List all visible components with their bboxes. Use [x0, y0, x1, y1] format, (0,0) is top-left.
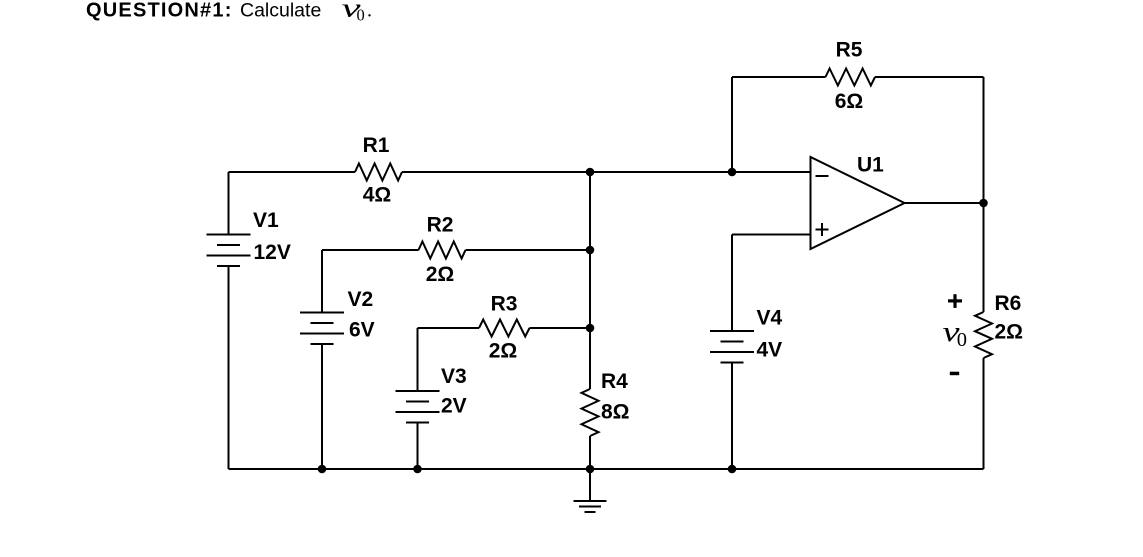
node dot V2-bottom	[318, 465, 327, 474]
svg-text:0: 0	[357, 5, 365, 24]
wire	[530, 327, 591, 329]
ground	[574, 469, 607, 512]
wire R3 branch	[418, 327, 480, 329]
svg-text:R4: R4	[601, 370, 628, 393]
svg-text:V4: V4	[757, 307, 783, 330]
svg-text:8Ω: 8Ω	[601, 401, 630, 424]
wire left rail bottom	[228, 266, 230, 469]
wire R5 right leg	[983, 77, 985, 203]
title	[86, 0, 372, 24]
wire R5 top right	[875, 76, 984, 78]
op-amp U1	[811, 157, 905, 249]
svg-text:R1: R1	[363, 134, 390, 157]
wire op-amp output	[905, 202, 984, 204]
svg-text:2Ω: 2Ω	[426, 263, 455, 286]
wire R5 feedback left leg	[731, 77, 733, 172]
node dot output	[979, 199, 988, 208]
wire bottom rail	[229, 468, 984, 470]
svg-text:Calculate: Calculate	[240, 0, 321, 22]
wire V4 bottom leg	[731, 363, 733, 470]
resistor R3	[479, 320, 530, 337]
wire middle node line upper	[589, 172, 591, 389]
node dot R2-mid	[586, 246, 595, 255]
svg-text:6Ω: 6Ω	[835, 90, 864, 113]
svg-text:V1: V1	[253, 209, 279, 232]
svg-text:2V: 2V	[441, 395, 467, 418]
svg-text:0: 0	[957, 329, 967, 351]
node dot V3-bottom	[413, 465, 422, 474]
svg-text:12V: 12V	[254, 241, 291, 264]
node dot A2	[728, 168, 737, 177]
resistor R4	[582, 389, 599, 436]
svg-text:2Ω: 2Ω	[995, 321, 1024, 344]
wire plus input	[732, 234, 811, 236]
svg-text:R3: R3	[491, 293, 518, 316]
svg-text:QUESTION#1:: QUESTION#1:	[86, 0, 233, 22]
svg-text:4V: 4V	[757, 339, 783, 362]
label v0	[943, 316, 968, 351]
svg-text:.: .	[367, 0, 372, 22]
node dot V4-bottom	[728, 465, 737, 474]
wire	[466, 249, 591, 251]
label plus v0	[948, 294, 962, 308]
svg-text:U1: U1	[857, 154, 884, 177]
battery V4	[710, 331, 754, 363]
wire right rail lower	[983, 358, 985, 469]
node dot R3-mid	[586, 324, 595, 333]
wire V3 bottom leg	[417, 423, 419, 470]
svg-text:V3: V3	[441, 365, 467, 388]
node dot A1	[586, 168, 595, 177]
svg-text:2Ω: 2Ω	[489, 340, 518, 363]
wire V2 bottom leg	[321, 344, 323, 469]
resistor R6	[975, 312, 992, 358]
battery V2	[300, 313, 344, 345]
wire R5 top left	[732, 76, 826, 78]
op-amp minus sign	[816, 175, 829, 177]
label minus v0	[950, 372, 959, 376]
resistor R2	[419, 242, 466, 259]
wire V2 top leg	[321, 250, 323, 313]
wire R2 branch	[322, 249, 419, 251]
svg-text:R2: R2	[427, 214, 454, 237]
resistor R5	[826, 69, 876, 86]
wire top node A: V1 top to op-amp minus input	[229, 171, 356, 173]
wire middle node line lower	[589, 436, 591, 469]
wire V4 top leg	[731, 235, 733, 332]
wire V3 top leg	[417, 328, 419, 391]
node dot ground	[586, 465, 595, 474]
battery V3	[396, 391, 440, 423]
wire	[402, 171, 811, 173]
svg-text:V2: V2	[348, 288, 374, 311]
op-amp plus sign	[816, 223, 829, 236]
wire right rail upper	[983, 203, 985, 312]
battery V1	[207, 235, 251, 267]
svg-text:R6: R6	[995, 292, 1022, 315]
svg-text:R5: R5	[836, 39, 863, 62]
svg-text:6V: 6V	[349, 319, 375, 342]
wire left rail top	[228, 172, 230, 235]
svg-text:4Ω: 4Ω	[363, 184, 392, 207]
resistor R1	[355, 164, 402, 181]
